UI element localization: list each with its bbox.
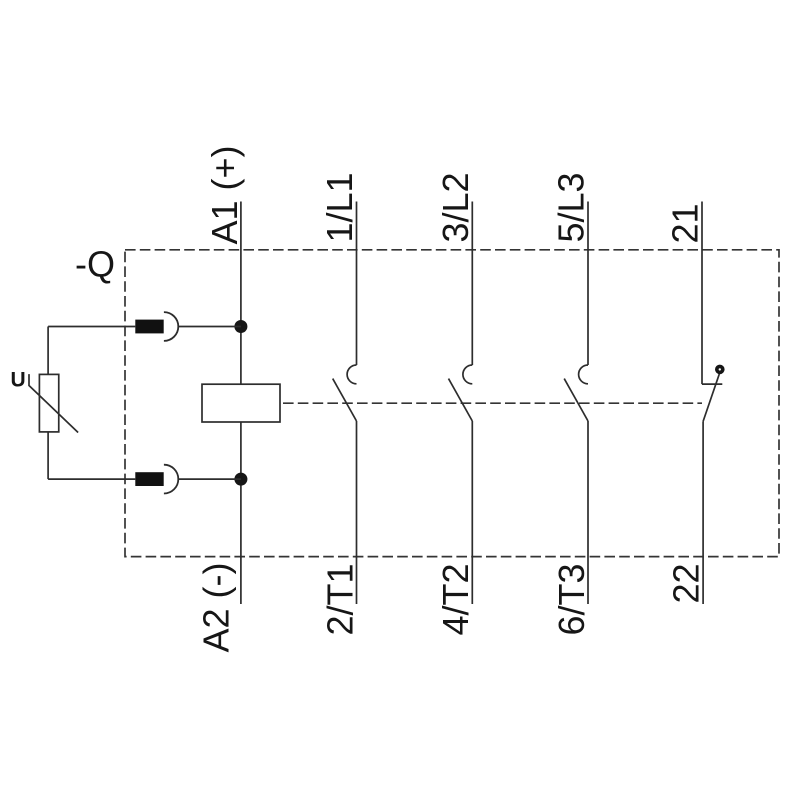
- left vertical wire lower: [47, 432, 49, 479]
- moving contact blade pole 2: [449, 379, 473, 421]
- wire 2/T1 bottom: [356, 421, 358, 604]
- junction node at A1 branch: [234, 320, 247, 333]
- wire A2 vertical: [240, 422, 242, 604]
- wire socket to A2 node: [178, 478, 241, 480]
- left vertical wire upper: [47, 327, 49, 375]
- wire 3/L2 top: [471, 202, 473, 366]
- svg-text:5/L3: 5/L3: [551, 172, 592, 242]
- svg-text:1/L1: 1/L1: [319, 172, 360, 242]
- moving contact blade pole 3: [564, 379, 588, 421]
- fixed contact arc pole 3: [579, 365, 588, 384]
- varistor diagonal stroke: [29, 374, 78, 432]
- svg-text:4/T2: 4/T2: [435, 564, 476, 636]
- moving contact blade pole 1: [333, 379, 357, 421]
- svg-text:22: 22: [665, 564, 706, 604]
- auxiliary NC contact (21 - 22): [702, 202, 722, 605]
- surge suppressor branch: upper wire from varistor: [48, 326, 135, 328]
- svg-text:21: 21: [665, 203, 706, 243]
- wire A1 vertical: [240, 202, 242, 385]
- svg-text:-Q: -Q: [75, 244, 115, 285]
- moving contact blade NC: [703, 374, 719, 421]
- lower wire from varistor: [48, 478, 135, 480]
- svg-text:U: U: [11, 368, 26, 391]
- coil -Q (operating coil A1-A2): [202, 384, 280, 422]
- main contact pole 3 (5/L3 - 6/T3): [564, 202, 588, 605]
- svg-text:A1 (+): A1 (+): [204, 145, 245, 244]
- wire 5/L3 top: [587, 202, 589, 366]
- svg-text:A2 (-): A2 (-): [195, 563, 236, 653]
- fixed contact bar 21: [702, 383, 722, 385]
- wire 22 bottom: [702, 421, 704, 604]
- dashed enclosure box of contactor -Q: [125, 250, 779, 557]
- svg-text:2/T1: 2/T1: [319, 564, 360, 636]
- upper plug-in connector pin (solid): [135, 320, 163, 334]
- wire 4/T2 bottom: [471, 421, 473, 604]
- svg-text:3/L2: 3/L2: [435, 172, 476, 242]
- wire 21 top: [701, 202, 703, 385]
- lower plug-in connector pin (solid): [135, 472, 163, 486]
- fixed contact arc pole 2: [463, 365, 472, 384]
- wire 6/T3 bottom: [587, 421, 589, 604]
- NC contact pivot circle: [717, 366, 723, 372]
- main contact pole 1 (1/L1 - 2/T1): [333, 202, 357, 605]
- varistor body: [39, 374, 58, 432]
- svg-text:6/T3: 6/T3: [551, 564, 592, 636]
- upper plug-in connector socket arc: [164, 312, 178, 341]
- junction node at A2 branch: [234, 473, 247, 486]
- lower plug-in connector socket arc: [164, 465, 178, 494]
- fixed contact arc pole 1: [347, 365, 356, 384]
- wire socket to A1 node: [178, 326, 241, 328]
- dashed mechanical actuator link: [283, 402, 702, 404]
- main contact pole 2 (3/L2 - 4/T2): [449, 202, 473, 605]
- wire 1/L1 top: [356, 202, 358, 366]
